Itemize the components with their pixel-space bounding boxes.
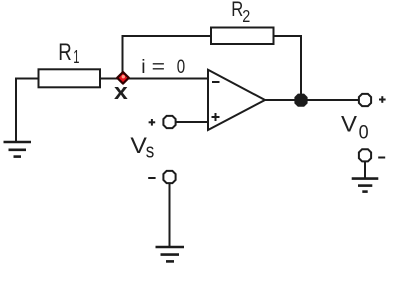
svg-text:s: s <box>146 140 155 162</box>
svg-text:0: 0 <box>359 123 369 144</box>
svg-text:i: i <box>141 56 145 78</box>
wire top to R2 <box>122 35 212 37</box>
svg-text:R: R <box>58 39 72 66</box>
terminal T3 plus (Vo+) <box>359 94 371 106</box>
label R1 <box>58 39 79 67</box>
wire corner down to output node <box>300 35 302 100</box>
svg-text:0: 0 <box>177 56 186 78</box>
minus sign at Vs- terminal <box>148 177 155 179</box>
op-amp minus symbol <box>212 81 220 83</box>
resistor R2 <box>211 28 274 45</box>
svg-text:=: = <box>152 56 165 78</box>
svg-text:1: 1 <box>73 47 79 67</box>
wire ground to R1 <box>15 78 38 80</box>
wire Vo- terminal to ground <box>364 162 366 179</box>
resistor R1 <box>39 69 101 87</box>
svg-text:V: V <box>341 111 357 136</box>
ground GND3 (right) <box>352 179 379 192</box>
wire R2 to corner <box>274 35 302 37</box>
wire node X to op-amp inverting input <box>122 78 208 80</box>
wire plus terminal to op-amp <box>176 121 208 123</box>
junction node (output) <box>295 95 306 106</box>
op-amp U1 <box>208 70 265 130</box>
label Vo <box>341 111 369 143</box>
terminal T2 minus (Vs-) <box>163 171 175 183</box>
label Vs <box>130 133 154 163</box>
wire Vs- terminal down to ground <box>169 184 171 248</box>
ground GND1 (left) <box>4 79 32 157</box>
svg-text:V: V <box>130 133 147 158</box>
node X highlight <box>122 75 125 78</box>
wire R1 to node X <box>100 78 122 80</box>
svg-text:2: 2 <box>242 6 250 26</box>
terminal T4 minus (Vo-) <box>359 149 371 161</box>
wire op-amp output to Vo terminal <box>265 99 359 101</box>
svg-text:x: x <box>114 79 129 104</box>
ground GND2 (bottom center) <box>156 247 185 261</box>
minus sign at Vo- terminal <box>378 157 385 159</box>
label R2 <box>231 0 250 26</box>
plus sign at Vo terminal <box>379 96 386 103</box>
plus sign at Vs terminal <box>149 119 156 126</box>
node X (red) <box>117 72 129 84</box>
terminal T1 plus (Vs+) <box>163 116 175 128</box>
op-amp plus symbol <box>212 113 220 121</box>
wire node X up <box>122 36 124 74</box>
